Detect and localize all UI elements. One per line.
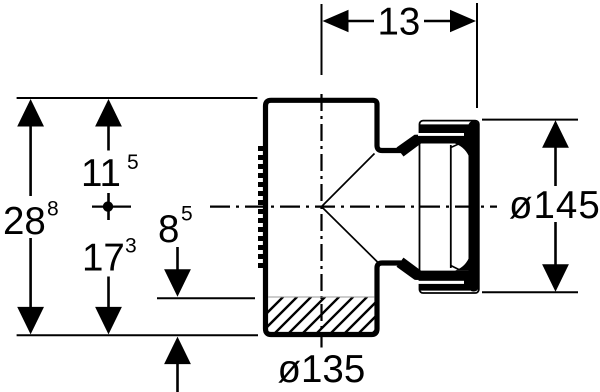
body outline [266,100,431,334]
svg-text:17: 17 [82,237,125,280]
svg-text:ø145: ø145 [509,184,600,227]
bottom extension line [17,334,258,336]
seal ring bar [469,121,479,292]
dimension line 28.8 [17,99,44,334]
spigot depth line (8.5 dim target) [157,297,255,299]
vertical centerline [320,94,322,348]
svg-text:8: 8 [47,197,59,220]
coupling thin outline [420,121,479,293]
dimension line 11.5 / 17.3 [95,99,122,334]
svg-text:13: 13 [378,1,421,44]
fillet lower [455,255,470,270]
svg-text:5: 5 [127,151,139,174]
svg-text:28: 28 [3,200,46,243]
hatching [246,296,410,334]
dimension o145 (right) [482,120,578,293]
svg-text:ø135: ø135 [278,348,366,391]
dimension 13 (top) [322,3,478,108]
fillet upper [455,144,470,160]
svg-text:11: 11 [81,152,121,195]
svg-text:5: 5 [181,202,193,225]
top extension line [17,97,258,99]
seal band lower [397,258,471,291]
dimension arrows 8.5 [164,247,191,392]
chamfer diagonal lower [322,207,378,262]
svg-text:8: 8 [158,208,179,251]
chamfer diagonal upper [322,154,375,207]
horizontal centerline [210,206,497,208]
node marker dot [103,201,113,211]
svg-text:3: 3 [125,235,137,258]
serration teeth [258,146,264,268]
seal band upper [397,124,471,156]
hatch boundary [268,296,375,298]
chamfer tick lower [451,266,459,270]
chamfer tick upper [451,144,459,148]
bore line [450,145,452,268]
